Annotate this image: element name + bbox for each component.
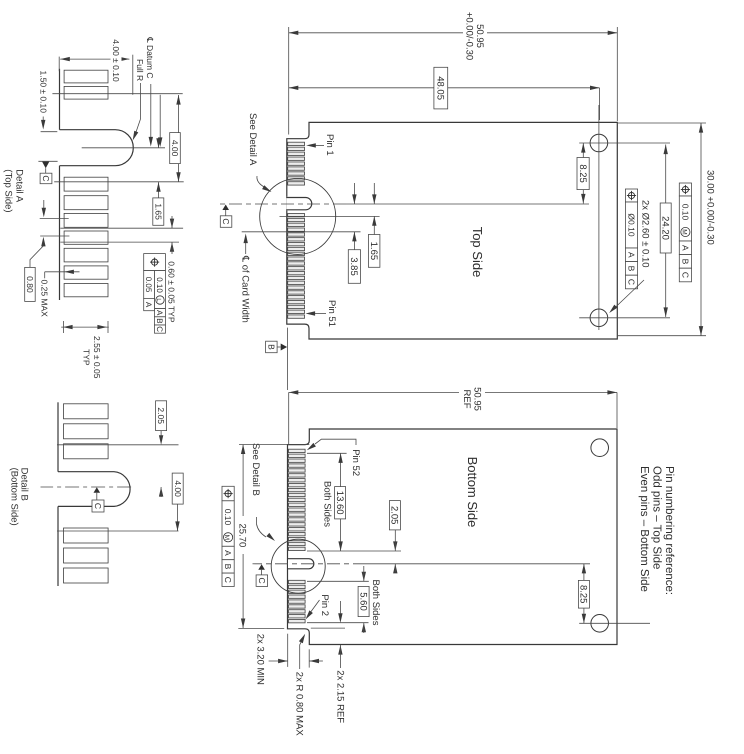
svg-text:25.70: 25.70 <box>237 524 248 548</box>
dimension 13.60 Both Sides <box>340 453 342 486</box>
svg-text:48.05: 48.05 <box>435 76 446 100</box>
detail A slot top edge extension <box>41 131 58 133</box>
detail A pad width lines 0.60 <box>60 227 183 229</box>
reference line first pin (13.60) <box>307 452 347 454</box>
svg-text:+0.00/-0.30: +0.00/-0.30 <box>464 12 475 60</box>
dimension 8.25 (hole centre to key centreline) <box>582 143 584 158</box>
svg-text:1.65: 1.65 <box>153 203 163 220</box>
svg-text:Odd pins – Top Side: Odd pins – Top Side <box>650 466 662 569</box>
svg-text:Pin 52: Pin 52 <box>350 449 361 476</box>
dimension 1.65 <box>373 183 375 204</box>
dimension 50.95 REF <box>616 392 618 428</box>
detail B pads upper <box>64 404 109 419</box>
svg-text:8.25: 8.25 <box>578 585 589 604</box>
reference line first lower pin (5.60) <box>307 580 369 582</box>
key slot centerline (datum C), bottom figure <box>366 563 590 565</box>
dimension 2x 2.15 REF <box>338 613 342 623</box>
svg-text:1.65: 1.65 <box>368 242 379 261</box>
detail B datum C flag <box>94 487 101 493</box>
reference line Pin 2 (5.60) <box>307 622 369 624</box>
connector pins, lower group (to Pin 2), Bottom Side <box>289 580 306 583</box>
centerline of card width line <box>242 231 361 233</box>
svg-text:Both Sides: Both Sides <box>321 481 332 527</box>
detail A pads upper <box>64 70 108 83</box>
svg-text:M: M <box>681 229 688 234</box>
hole centerlines <box>598 105 600 330</box>
svg-text:Pin numbering reference:: Pin numbering reference: <box>663 466 675 595</box>
svg-text:4.00 ± 0.10: 4.00 ± 0.10 <box>111 39 121 82</box>
detail B pad3 line (2.05 ref) <box>57 444 179 446</box>
svg-text:Full R: Full R <box>135 59 145 81</box>
detail A composite FCF 0.10 L / 0.05 <box>144 254 166 271</box>
mounting hole 1 (bottom figure) <box>591 439 609 457</box>
dimension 2.05 <box>394 530 396 542</box>
svg-text:0.05: 0.05 <box>144 277 153 293</box>
svg-text:Both Sides: Both Sides <box>370 580 381 626</box>
svg-text:2x 3.20 MIN: 2x 3.20 MIN <box>255 634 266 685</box>
svg-text:2.05: 2.05 <box>389 506 400 525</box>
connector pins, upper group (Pin 1 side), Top Side <box>288 142 305 145</box>
svg-text:3.85: 3.85 <box>348 257 359 276</box>
detail A dimension 0.60 +-0.05 TYP <box>170 219 174 229</box>
svg-text:0.80: 0.80 <box>25 276 35 293</box>
svg-text:2x Ø2.60 ± 0.10: 2x Ø2.60 ± 0.10 <box>640 200 651 268</box>
detail A dimension 4.00 (pad row gap) <box>178 95 180 133</box>
detail B pads lower <box>64 528 109 543</box>
detail B view circle <box>271 539 325 593</box>
svg-text:℄ of Card Width: ℄ of Card Width <box>240 255 251 323</box>
detail A boxed 0.80 with leader and arrow to line B <box>25 267 36 301</box>
dimension 30.00 +0.00/-0.30 <box>700 123 702 336</box>
reference line, first lower pin <box>280 215 380 217</box>
svg-text:2.55 ± 0.05: 2.55 ± 0.05 <box>92 336 102 379</box>
detail A 0.80 reference line B <box>40 235 69 237</box>
datum C flag, top figure <box>222 205 229 211</box>
svg-text:8.25: 8.25 <box>577 164 588 183</box>
svg-text:B: B <box>266 344 276 350</box>
detail B dimension 4.00 <box>177 487 179 531</box>
detail B: key slot enlarged <box>58 472 130 507</box>
mounting hole 1 (top figure) <box>590 134 608 152</box>
detail B: card edge baseline <box>57 402 59 471</box>
detail A 0.80 reference line A <box>40 218 69 220</box>
svg-text:C: C <box>93 503 103 509</box>
svg-text:2x 2.15 REF: 2x 2.15 REF <box>334 670 345 723</box>
connector key slot, Top Side <box>286 197 310 211</box>
dimension 24.20 between holes <box>665 145 667 204</box>
svg-text:13.60: 13.60 <box>334 491 345 515</box>
connector pins, lower group (to Pin 51), Top Side <box>288 214 305 217</box>
svg-text:30.00 +0.00/-0.30: 30.00 +0.00/-0.30 <box>705 170 716 245</box>
extension line at card top edge <box>616 27 618 121</box>
svg-text:0.10: 0.10 <box>223 509 233 526</box>
svg-text:Ø0.10: Ø0.10 <box>626 213 636 236</box>
svg-text:A: A <box>144 302 153 308</box>
dimension 3.85 <box>353 183 355 204</box>
svg-text:C: C <box>41 175 51 181</box>
detail A: card edge baseline <box>59 69 61 130</box>
svg-text:A: A <box>626 252 636 258</box>
svg-text:M: M <box>223 535 230 540</box>
svg-text:℄ Datum C: ℄ Datum C <box>145 36 155 78</box>
svg-text:0.60 ± 0.05 TYP: 0.60 ± 0.05 TYP <box>167 261 177 323</box>
svg-text:Top Side: Top Side <box>470 227 485 278</box>
mounting hole 2 (top figure) <box>590 309 608 327</box>
detail A: pad P2 centreline <box>52 93 182 95</box>
mounting hole 2 (bottom figure) <box>591 615 609 633</box>
svg-text:50.95: 50.95 <box>472 387 483 411</box>
svg-text:1.50 ± 0.10: 1.50 ± 0.10 <box>39 71 49 114</box>
detail A dimension 1.65 <box>158 138 160 148</box>
detail A dimension 4.00 +-0.10 (slot depth) <box>60 58 129 60</box>
svg-text:A: A <box>223 550 233 556</box>
dimension 48.05 <box>448 87 600 89</box>
dimension 50.95 +0.00/-0.30 (overall length) <box>487 32 617 34</box>
svg-text:C: C <box>155 326 164 332</box>
detail A: pad L1 centreline <box>54 181 184 183</box>
svg-text:2.05: 2.05 <box>156 407 166 424</box>
svg-text:C: C <box>221 218 231 224</box>
svg-text:Detail A: Detail A <box>14 169 25 202</box>
detail A: slot centreline <box>82 147 165 149</box>
svg-text:50.95: 50.95 <box>474 24 485 48</box>
svg-text:See Detail A: See Detail A <box>247 113 258 166</box>
svg-text:B: B <box>680 259 690 265</box>
svg-text:0.25 MAX: 0.25 MAX <box>40 280 50 318</box>
svg-text:A: A <box>680 245 690 251</box>
svg-text:Bottom Side: Bottom Side <box>465 457 480 528</box>
svg-text:TYP: TYP <box>82 349 92 366</box>
datum B flag on connector edge <box>287 328 289 390</box>
svg-text:5.60: 5.60 <box>357 592 368 611</box>
extension line at connector edge <box>288 27 290 135</box>
reference line last upper pin <box>307 550 401 552</box>
svg-text:C: C <box>223 577 233 583</box>
svg-text:A: A <box>155 310 164 316</box>
dimension 8.25 (bottom fig) <box>583 564 585 581</box>
extension line 48.05 <box>599 88 601 120</box>
svg-text:B: B <box>223 564 233 570</box>
FCF position 0.10 (M) A B C (bottom fig) <box>222 486 234 501</box>
detail B slot centreline dashed <box>41 486 132 488</box>
svg-text:C: C <box>626 279 636 285</box>
svg-text:Pin 51: Pin 51 <box>326 300 337 327</box>
detail A view circle <box>260 178 336 254</box>
datum C flag, bottom figure <box>258 564 265 570</box>
dimension 25.70 <box>239 444 309 446</box>
detail A datum C flag at slot edge <box>38 160 57 162</box>
svg-text:0.10: 0.10 <box>680 204 690 221</box>
svg-text:C: C <box>257 578 267 584</box>
FCF position 0.10 (M) A B C (top fig) <box>679 183 691 196</box>
spine end extension line near notch (bottom fig) <box>311 627 345 629</box>
detail B dimension 2.05 <box>156 401 167 431</box>
detail A second leader arrow to slot centreline <box>159 95 161 138</box>
dimension 2x 3.20 MIN <box>287 634 289 667</box>
svg-text:0.10: 0.10 <box>155 277 164 293</box>
svg-text:(Bottom Side): (Bottom Side) <box>9 468 20 526</box>
hole 2 centreline (bottom fig) <box>579 622 650 624</box>
key slot centerline (datum C), top figure <box>346 203 589 205</box>
detail A pads lower <box>64 177 108 191</box>
card outline: Top Side view <box>287 122 618 339</box>
leader to mounting hole 2 <box>613 280 645 310</box>
svg-text:Pin 2: Pin 2 <box>319 594 330 616</box>
connector pins, upper group (Pin 52 side), Bottom Side <box>289 449 306 452</box>
svg-text:C: C <box>680 272 690 278</box>
dimension 5.60 Both Sides <box>362 572 366 582</box>
detail A: key slot enlarged <box>60 130 134 166</box>
svg-text:B: B <box>155 318 164 323</box>
detail A 0.80 dim upper outside arrow <box>43 200 45 208</box>
card outline: Bottom Side view <box>288 429 618 645</box>
svg-text:Pin 1: Pin 1 <box>324 134 335 156</box>
svg-text:4.00: 4.00 <box>170 140 180 157</box>
svg-text:24.20: 24.20 <box>660 216 671 240</box>
svg-text:See Detail B: See Detail B <box>250 443 261 496</box>
connector key slot, Bottom Side <box>288 558 313 570</box>
svg-text:(Top Side): (Top Side) <box>3 169 14 212</box>
extension lines for 30.00 <box>618 122 706 124</box>
detail B lower pad line (4.00 ref) <box>57 530 179 532</box>
svg-text:2x R 0.80 MAX: 2x R 0.80 MAX <box>294 672 305 737</box>
svg-text:Even pins – Bottom Side: Even pins – Bottom Side <box>638 466 650 592</box>
svg-text:REF: REF <box>461 390 472 409</box>
svg-text:B: B <box>626 266 636 272</box>
detail A dimension 2.55 +-0.05 TYP (pad length) <box>61 326 109 328</box>
FCF position dia0.10 A B C (top fig) <box>625 189 637 202</box>
svg-text:4.00: 4.00 <box>173 480 183 497</box>
